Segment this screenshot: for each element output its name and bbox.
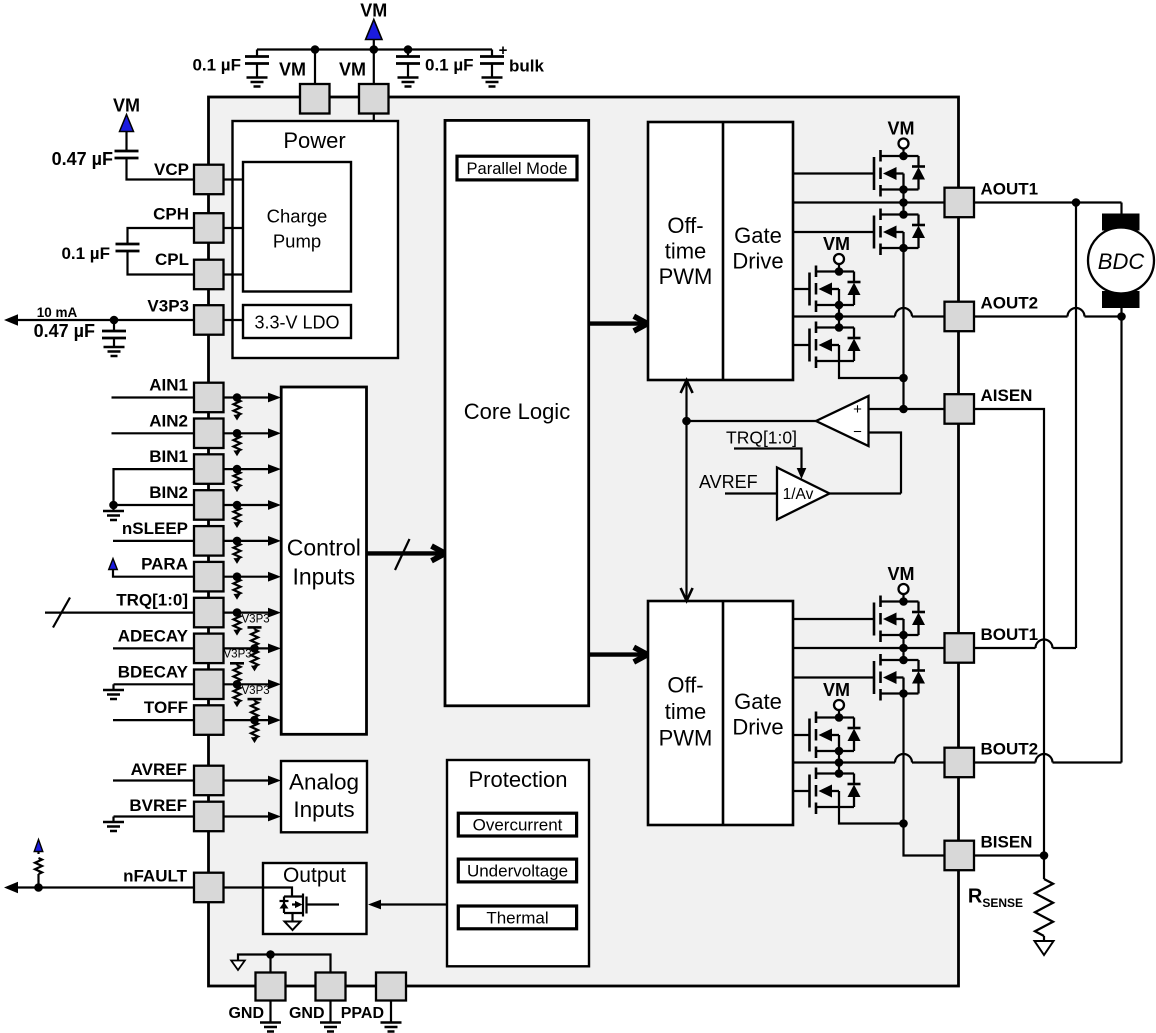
svg-text:ADECAY: ADECAY [118, 626, 189, 645]
bus slash (TRQ) [53, 598, 70, 628]
wire AVREF to 1/Av [725, 492, 777, 494]
wire motor bottom terminal [1120, 308, 1122, 317]
output FET body arrow [295, 901, 303, 908]
svg-text:BDC: BDC [1098, 249, 1145, 274]
wire AISEN to sense resistor [975, 409, 1045, 856]
wire Q8 source to sense bus B [839, 807, 904, 824]
wire nFAULT to output FET gate [224, 888, 293, 897]
logic-high arrow (nFAULT) [34, 840, 43, 852]
wire AOUT1 to motor [975, 201, 1122, 203]
capacitor 0.47uF (VCP) [115, 151, 139, 158]
pull-up resistor (nFAULT) [37, 874, 39, 888]
node AOUT1 [899, 198, 908, 207]
wire VM arrow to 0.47uF cap [125, 132, 127, 152]
block Thermal [458, 906, 576, 929]
capacitor 0.1uF (top left) [256, 50, 258, 57]
pulldown resistor (PARA) [233, 572, 242, 581]
block Analog Inputs [281, 761, 367, 832]
VM terminal circle [834, 700, 844, 710]
motor terminal top [1102, 214, 1140, 231]
amplifier 1/Av [777, 468, 830, 520]
svg-text:VM: VM [113, 96, 140, 116]
transistor Q2 (AOUT1 low side) [881, 213, 919, 215]
wire Q6 source to sense bus B [902, 694, 904, 824]
svg-text:+: + [853, 401, 862, 418]
svg-text:Analog: Analog [289, 770, 359, 795]
wire TOFF to Control Inputs [224, 719, 271, 721]
wire Q2 source down to sense bus [902, 248, 904, 378]
wire VM arrow to rail [373, 40, 375, 50]
pulldown resistor (BIN1) [233, 465, 242, 474]
V3P3 supply bar (BDECAY) [230, 662, 244, 665]
svg-text:VM: VM [888, 564, 915, 584]
node sense bus A [899, 374, 908, 383]
svg-text:Parallel Mode: Parallel Mode [467, 160, 568, 178]
svg-text:TOFF: TOFF [144, 698, 188, 717]
wire gate drive A to Q4 gate [793, 344, 810, 346]
comparator (A current) [816, 396, 869, 446]
wire Q1 source to AOUT1 node [902, 190, 904, 215]
svg-text:CPH: CPH [153, 205, 189, 224]
pull-down resistor (TOFF) [251, 722, 258, 738]
VM arrow (VCP) [120, 115, 134, 132]
wire BOUT2 external [975, 761, 1036, 763]
wire BOUT1 to pin [793, 647, 945, 649]
ground (top right cap) [398, 78, 419, 87]
svg-text:Core Logic: Core Logic [464, 399, 570, 424]
svg-text:TRQ[1:0]: TRQ[1:0] [116, 591, 188, 610]
svg-text:VM: VM [360, 1, 387, 21]
wire VM circle to drain rail [902, 149, 904, 157]
ground arrow (GND tie) [231, 961, 245, 971]
node AOUT2/motor/BOUT2 tie [1117, 312, 1126, 321]
wire ADECAY external [113, 647, 194, 649]
pin BIN2 [194, 490, 224, 520]
block Overcurrent [458, 813, 576, 836]
pull-down resistor (BDECAY) [234, 686, 241, 702]
svg-text:AIN2: AIN2 [149, 411, 188, 430]
svg-text:VM: VM [888, 119, 915, 139]
wire BOUT1 external [975, 647, 1036, 649]
svg-text:Protection: Protection [468, 767, 567, 792]
capacitor 0.1uF (CPH-CPL) [116, 244, 140, 251]
VM terminal circle [834, 254, 844, 264]
node Q1 source [899, 185, 908, 194]
pin CPH [194, 213, 224, 243]
svg-text:BOUT2: BOUT2 [981, 740, 1039, 759]
wire AOUT1 to pin [793, 201, 945, 203]
wire GND1 lead [269, 955, 271, 973]
svg-text:PPAD: PPAD [341, 1005, 384, 1022]
pull-down resistor (ADECAY) [251, 650, 258, 666]
node Q4 drain [835, 323, 844, 332]
pin VCP [194, 165, 224, 195]
wire gate drive A to Q1 gate [793, 172, 874, 174]
pin GND 2 [316, 973, 346, 1001]
wire VCP to charge pump [224, 178, 244, 180]
bus Core Logic to Off-time PWM A [589, 321, 648, 325]
wire AVREF to Analog Inputs [224, 779, 271, 781]
svg-text:BVREF: BVREF [129, 796, 187, 815]
wire Protection to Output [381, 903, 447, 905]
node Q2 drain [899, 210, 908, 219]
svg-text:AVREF: AVREF [131, 760, 187, 779]
wire gate drive A to Q2 gate [793, 231, 874, 233]
wire BIN1 to Control Inputs [224, 468, 271, 470]
motor terminal bottom [1102, 291, 1140, 308]
ground (PPAD) [390, 1001, 392, 1023]
svg-text:nFAULT: nFAULT [123, 867, 188, 886]
output FET body diode [280, 902, 289, 909]
wire VM to LDO input [362, 320, 374, 322]
wire Q7 source to BOUT2 node [838, 751, 840, 774]
svg-text:V3P3: V3P3 [147, 297, 189, 316]
node divider (BDECAY) [233, 680, 242, 689]
ground (V3P3 cap) [104, 347, 125, 356]
node Q8 drain [835, 769, 844, 778]
node V3P3 cap junction [110, 316, 119, 325]
node divider (TOFF) [250, 716, 259, 725]
svg-text:AISEN: AISEN [981, 386, 1033, 405]
svg-text:Drive: Drive [732, 715, 783, 740]
capacitor 0.1uF (top right) [407, 50, 409, 57]
wire CPH to flying cap [128, 228, 195, 244]
wire rail to VM pin2 [373, 50, 375, 85]
node VM rail / VM arrow junction [370, 45, 379, 54]
wire feedback to PWM A [685, 381, 687, 422]
svg-text:CPL: CPL [155, 250, 189, 269]
wire Q4 source to sense bus [839, 361, 904, 378]
svg-text:Off-: Off- [667, 673, 703, 698]
wire BISEN to sense resistor [975, 854, 1045, 856]
ground arrow (RSENSE) [1035, 941, 1054, 955]
wire ADECAY to Control Inputs [224, 647, 271, 649]
wire parallel tie AOUT2-BOUT2 [1120, 317, 1122, 763]
svg-text:BOUT1: BOUT1 [981, 625, 1039, 644]
divider Gate Drive A [722, 122, 725, 380]
pin AVREF [194, 766, 224, 796]
svg-text:BIN1: BIN1 [149, 447, 188, 466]
wire flying cap to CPL [128, 251, 195, 275]
node Q3 source [835, 301, 844, 310]
pin PPAD [376, 973, 406, 1001]
svg-text:AOUT2: AOUT2 [981, 294, 1039, 313]
node sense bus B [899, 819, 908, 828]
block Output [263, 863, 367, 934]
svg-text:Thermal: Thermal [486, 908, 548, 927]
wire sense bus A to AISEN [902, 378, 904, 409]
node Q7 source [835, 747, 844, 756]
wire AVREF external [113, 779, 194, 781]
svg-text:0.1 µF: 0.1 µF [192, 56, 241, 75]
bus Control Inputs to Core Logic [367, 551, 446, 555]
node VM rail / cap junction [404, 45, 413, 54]
wire PARA external [113, 570, 194, 577]
pulldown resistor (AIN1) [233, 393, 242, 402]
svg-text:nSLEEP: nSLEEP [122, 519, 188, 538]
node GND tie [266, 950, 275, 959]
svg-text:GND: GND [289, 1005, 325, 1022]
resistor RSENSE [1043, 856, 1045, 880]
pin PARA [194, 562, 224, 592]
svg-text:0.1 µF: 0.1 µF [61, 244, 110, 263]
block Undervoltage [458, 859, 576, 882]
node AOUT1/BOUT1 parallel tie [1072, 198, 1081, 207]
wire TRQ[1:0] external bus [45, 611, 194, 613]
wire TOFF external [113, 719, 194, 721]
VM terminal circle [899, 139, 909, 149]
capacitor 0.47uF (V3P3) [113, 320, 115, 331]
svg-text:VM: VM [279, 60, 306, 80]
wire nSLEEP to Control Inputs [224, 540, 271, 542]
pin VM 1 [300, 84, 330, 114]
pull-up resistor (TOFF) [253, 699, 255, 701]
block 3.3-V LDO [243, 305, 351, 338]
pin BIN1 [194, 454, 224, 484]
pin CPL [194, 260, 224, 290]
wire AISEN to comparator + [869, 408, 945, 410]
pin AISEN [945, 394, 975, 424]
wire 1/Av output to comparator - [830, 492, 902, 494]
svg-text:3.3-V LDO: 3.3-V LDO [254, 313, 339, 333]
pin TRQ[1:0] [194, 598, 224, 628]
wire BIN1 external [114, 469, 195, 505]
svg-text:BISEN: BISEN [981, 833, 1033, 852]
svg-text:PWM: PWM [659, 264, 713, 289]
wire VM circle to drain rail [838, 264, 840, 272]
svg-text:VM: VM [823, 234, 850, 254]
pulldown resistor (BIN2) [233, 501, 242, 510]
wire CPH to charge pump [224, 227, 244, 229]
pin AOUT2 [945, 302, 975, 332]
wire BIN2 to Control Inputs [224, 504, 271, 506]
node AISEN comparator tap [899, 405, 908, 414]
wire BIN2 external [114, 504, 195, 506]
ground (bulk cap) [482, 78, 503, 87]
device outline (IC body) [209, 97, 959, 986]
block Protection [447, 760, 589, 966]
node Q6 source [899, 689, 908, 698]
block Off-time PWM / Gate Drive B [648, 601, 793, 825]
svg-text:Gate: Gate [734, 689, 782, 714]
pin BOUT1 [945, 633, 975, 663]
pin nSLEEP [194, 526, 224, 556]
VM terminal circle [899, 584, 909, 594]
wire gate drive A to Q3 gate [793, 288, 810, 290]
svg-text:Inputs: Inputs [292, 564, 355, 590]
pin ADECAY [194, 634, 224, 664]
wire AIN1 to Control Inputs [224, 396, 271, 398]
svg-text:0.1 µF: 0.1 µF [425, 56, 474, 75]
pin TOFF [194, 705, 224, 735]
ground arrow (output FET) [285, 922, 301, 931]
wire AOUT2 to motor [975, 315, 1068, 317]
V3P3 supply bar (ADECAY) [248, 626, 262, 629]
block Core Logic [445, 120, 589, 705]
node sense resistor tap [1040, 851, 1049, 860]
pulldown resistor (AIN2) [233, 429, 242, 438]
pin BOUT2 [945, 748, 975, 778]
wire motor top terminal [1120, 203, 1122, 215]
svg-text:Overcurrent: Overcurrent [473, 816, 563, 835]
node AOUT2 [835, 312, 844, 321]
wire V3P3 external [16, 319, 194, 321]
pull-up resistor (BDECAY) [236, 663, 238, 665]
pin GND 1 [256, 973, 286, 1001]
block Control Inputs [281, 387, 366, 734]
wire VM circle to drain rail [838, 710, 840, 718]
svg-text:+: + [499, 42, 508, 59]
V3P3 supply bar (TOFF) [248, 698, 262, 701]
wire cap to VCP pin [127, 158, 195, 180]
wire AIN2 to Control Inputs [224, 432, 271, 434]
svg-text:BIN2: BIN2 [149, 483, 188, 502]
node BOUT2 [835, 758, 844, 767]
pull-up resistor (ADECAY) [253, 627, 255, 629]
motor BDC [1088, 228, 1154, 294]
transistor Q8 (BOUT2 low side) [816, 772, 854, 774]
node VM internal junction [370, 223, 379, 232]
svg-text:Drive: Drive [732, 249, 783, 274]
svg-text:AOUT1: AOUT1 [981, 180, 1039, 199]
svg-text:−: − [853, 424, 862, 441]
svg-text:Charge: Charge [267, 206, 328, 227]
pin BISEN [945, 841, 975, 871]
wire nFAULT external [16, 886, 194, 888]
svg-text:bulk: bulk [509, 57, 544, 76]
wire AIN2 external [112, 432, 195, 434]
svg-text:AVREF: AVREF [699, 472, 758, 492]
svg-text:V3P3: V3P3 [242, 613, 270, 625]
svg-text:V3P3: V3P3 [224, 648, 252, 660]
svg-text:PARA: PARA [141, 555, 188, 574]
ground (BIN2 tie) [112, 505, 114, 511]
svg-text:Control: Control [287, 535, 361, 561]
pin AOUT1 [945, 188, 975, 218]
wire AOUT2 to pin [793, 315, 895, 317]
wire AIN1 external [112, 396, 195, 398]
wire Q5 source to BOUT1 node [902, 635, 904, 660]
wire V3P3 to LDO [224, 319, 244, 321]
wire gate drive B to Q5 gate [793, 618, 874, 620]
svg-text:Inputs: Inputs [293, 797, 354, 822]
ground (GND1) [269, 1001, 271, 1023]
pin BDECAY [194, 670, 224, 700]
node VM rail / pin1 lead junction [311, 45, 320, 54]
svg-text:1/Av: 1/Av [783, 486, 814, 503]
wire sense bus B to BISEN [904, 824, 945, 856]
ground (top left cap) [247, 78, 268, 87]
pin VM 2 [359, 84, 389, 114]
wire BDECAY to Control Inputs [224, 683, 271, 685]
node nFAULT pullup [34, 883, 43, 892]
pin V3P3 [194, 305, 224, 335]
wire gate drive B to Q6 gate [793, 676, 874, 678]
node Q2 source [899, 244, 908, 253]
svg-text:V3P3: V3P3 [242, 685, 270, 697]
svg-text:0.47 µF: 0.47 µF [34, 321, 95, 341]
wire rail to VM pin1 [314, 50, 316, 85]
pulldown resistor (nSLEEP) [233, 537, 242, 546]
wire Q3 source to AOUT2 node [838, 305, 840, 328]
svg-text:PWM: PWM [659, 726, 713, 751]
block Parallel Mode [457, 156, 577, 180]
pin AIN1 [194, 383, 224, 413]
divider Gate Drive B [722, 601, 725, 825]
svg-text:GND: GND [228, 1005, 264, 1022]
bus Core Logic to Off-time PWM B [589, 652, 648, 656]
transistor Q6 (BOUT1 low side) [881, 659, 919, 661]
pin BVREF [194, 802, 224, 832]
ground (BVREF) [112, 817, 114, 823]
svg-text:Off-: Off- [667, 213, 703, 238]
svg-text:time: time [665, 239, 707, 264]
wire VM to charge pump input [362, 226, 374, 228]
node PWM feedback [682, 417, 691, 426]
wire feedback to PWM B [685, 421, 687, 601]
svg-text:BDECAY: BDECAY [118, 662, 189, 681]
wire comparator - input [869, 433, 902, 494]
wire VM top rail [257, 48, 492, 50]
wire GND tie rail [238, 955, 331, 973]
node BOUT1 [899, 644, 908, 653]
node Q5 source [899, 631, 908, 640]
wire nSLEEP external [113, 540, 194, 542]
wire BVREF external [114, 815, 195, 817]
wire CPL to charge pump [224, 273, 244, 275]
svg-text:Power: Power [283, 128, 345, 153]
wire PARA to Control Inputs [224, 576, 271, 578]
wire BOUT2 to pin [793, 761, 895, 763]
svg-text:Pump: Pump [273, 231, 321, 252]
wire BVREF to Analog Inputs [224, 815, 271, 817]
svg-text:TRQ[1:0]: TRQ[1:0] [726, 428, 797, 448]
svg-text:0.47 µF: 0.47 µF [52, 149, 113, 169]
wire TRQ to 1/Av [734, 449, 802, 471]
svg-text:VCP: VCP [154, 160, 189, 179]
block Off-time PWM / Gate Drive A [648, 122, 793, 380]
svg-text:AIN1: AIN1 [149, 376, 188, 395]
node divider (ADECAY) [250, 644, 259, 653]
ground (GND2) [329, 1001, 331, 1023]
wire TRQ[1:0] to Control Inputs [224, 611, 271, 613]
wire parallel tie AOUT1-BOUT1 [1075, 203, 1077, 649]
svg-text:10 mA: 10 mA [37, 305, 78, 320]
capacitor bulk [491, 50, 493, 57]
svg-text:Undervoltage: Undervoltage [467, 862, 568, 881]
block Power [233, 121, 399, 358]
pin AIN2 [194, 419, 224, 449]
block Charge Pump [243, 162, 351, 292]
wire comparator output [687, 420, 817, 422]
output FET (open drain) [280, 894, 340, 922]
pulldown resistor (TRQ[1:0]) [233, 608, 242, 617]
node Q6 drain [899, 656, 908, 665]
pin nFAULT [194, 873, 224, 903]
svg-text:VM: VM [823, 680, 850, 700]
wire VM pin2 into Power block [373, 114, 375, 322]
wire BDECAY external [114, 683, 195, 685]
svg-text:VM: VM [339, 60, 366, 80]
wire gate drive B to Q7 gate [793, 734, 810, 736]
VM supply arrow [366, 20, 382, 40]
node BIN1-BIN2 tie [109, 501, 118, 510]
logic-high arrow (PARA) [109, 559, 118, 570]
ground (BDECAY tie) [112, 684, 114, 690]
bus slash (control bus) [395, 539, 410, 570]
svg-text:time: time [665, 699, 707, 724]
wire gate drive B to Q8 gate [793, 790, 810, 792]
